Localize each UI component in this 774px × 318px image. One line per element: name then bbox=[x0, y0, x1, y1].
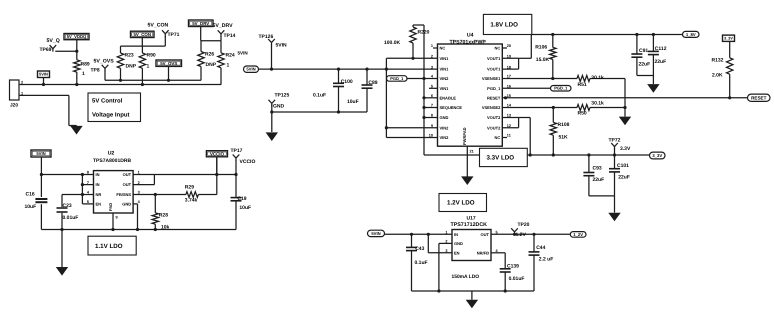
svg-text:5: 5 bbox=[431, 85, 433, 89]
svg-text:R51: R51 bbox=[578, 82, 587, 88]
svg-text:R220: R220 bbox=[418, 30, 430, 36]
svg-text:U4: U4 bbox=[467, 32, 474, 38]
svg-text:Voltage Input: Voltage Input bbox=[92, 112, 130, 119]
svg-text:3: 3 bbox=[431, 65, 433, 69]
svg-text:22uF: 22uF bbox=[618, 175, 630, 181]
svg-text:5VIN: 5VIN bbox=[371, 231, 380, 236]
svg-text:2.0K: 2.0K bbox=[712, 73, 723, 79]
svg-text:C101: C101 bbox=[617, 163, 629, 169]
svg-text:GND: GND bbox=[273, 103, 285, 109]
svg-text:R108: R108 bbox=[558, 122, 570, 128]
svg-text:C43: C43 bbox=[415, 246, 424, 252]
svg-text:13: 13 bbox=[507, 114, 511, 118]
svg-text:TP71: TP71 bbox=[168, 32, 180, 38]
svg-text:GND: GND bbox=[122, 202, 131, 207]
svg-text:TP20: TP20 bbox=[518, 222, 530, 228]
svg-text:R24: R24 bbox=[226, 53, 235, 59]
svg-text:3: 3 bbox=[445, 249, 447, 253]
svg-text:5V_OVS: 5V_OVS bbox=[94, 59, 115, 65]
svg-text:VCCIO: VCCIO bbox=[210, 151, 224, 156]
svg-text:VSENSE2: VSENSE2 bbox=[482, 105, 501, 110]
svg-text:1_2V: 1_2V bbox=[573, 232, 583, 237]
svg-text:1.2V: 1.2V bbox=[516, 232, 527, 238]
svg-text:EN: EN bbox=[96, 202, 102, 207]
svg-text:RESET: RESET bbox=[751, 95, 767, 100]
svg-text:10uF: 10uF bbox=[25, 204, 37, 210]
svg-text:16: 16 bbox=[507, 85, 511, 89]
svg-text:OUT: OUT bbox=[123, 172, 132, 177]
svg-text:1: 1 bbox=[147, 64, 150, 70]
svg-text:VSENSE1: VSENSE1 bbox=[482, 76, 501, 81]
svg-text:VIN1: VIN1 bbox=[440, 67, 450, 72]
svg-text:NC: NC bbox=[495, 135, 501, 140]
svg-text:9: 9 bbox=[116, 216, 118, 220]
svg-text:5V Control: 5V Control bbox=[92, 97, 123, 104]
svg-text:C19: C19 bbox=[237, 196, 246, 202]
svg-text:NC: NC bbox=[440, 46, 446, 51]
svg-text:15.0K: 15.0K bbox=[536, 57, 550, 63]
svg-text:17: 17 bbox=[507, 75, 511, 79]
svg-text:VOUT1: VOUT1 bbox=[487, 56, 501, 61]
svg-text:TPS7A8001DRB: TPS7A8001DRB bbox=[93, 158, 131, 164]
svg-text:C16: C16 bbox=[26, 192, 35, 198]
svg-text:R90: R90 bbox=[147, 53, 156, 59]
svg-text:U2: U2 bbox=[108, 151, 115, 157]
svg-text:RESET: RESET bbox=[487, 95, 501, 100]
svg-text:C93: C93 bbox=[593, 166, 602, 172]
svg-text:3: 3 bbox=[138, 191, 140, 195]
svg-text:VOUT2: VOUT2 bbox=[487, 125, 501, 130]
svg-text:7: 7 bbox=[431, 104, 433, 108]
svg-text:10uF: 10uF bbox=[347, 99, 359, 105]
svg-text:51K: 51K bbox=[559, 135, 569, 141]
svg-text:1.8V LDO: 1.8V LDO bbox=[490, 22, 518, 29]
svg-text:DNP: DNP bbox=[206, 62, 217, 68]
svg-text:5V_VDDQ: 5V_VDDQ bbox=[67, 34, 87, 39]
svg-text:5: 5 bbox=[87, 200, 89, 204]
svg-text:30.1k: 30.1k bbox=[591, 75, 604, 81]
svg-text:5VIN: 5VIN bbox=[276, 43, 288, 49]
svg-text:VIN2: VIN2 bbox=[440, 135, 450, 140]
svg-text:8: 8 bbox=[431, 114, 433, 118]
svg-text:R106: R106 bbox=[535, 44, 547, 50]
svg-text:3.3V LDO: 3.3V LDO bbox=[487, 155, 515, 162]
svg-text:0.01uF: 0.01uF bbox=[509, 276, 525, 282]
svg-text:3_3V: 3_3V bbox=[724, 37, 733, 41]
svg-text:DNP: DNP bbox=[126, 64, 137, 70]
svg-text:TP14: TP14 bbox=[224, 33, 236, 39]
svg-text:NR: NR bbox=[96, 192, 102, 197]
svg-text:VCCIO: VCCIO bbox=[240, 159, 256, 165]
svg-text:22uF: 22uF bbox=[639, 61, 651, 67]
svg-text:R132: R132 bbox=[712, 57, 724, 63]
svg-text:TPS71712DCK: TPS71712DCK bbox=[451, 222, 488, 228]
svg-text:8: 8 bbox=[87, 171, 89, 175]
svg-text:7: 7 bbox=[87, 181, 89, 185]
svg-text:18: 18 bbox=[507, 65, 511, 69]
svg-text:0.01uF: 0.01uF bbox=[63, 215, 79, 221]
svg-text:22uF: 22uF bbox=[655, 59, 667, 65]
svg-text:2: 2 bbox=[445, 240, 447, 244]
svg-text:IN: IN bbox=[454, 232, 458, 237]
svg-text:C44: C44 bbox=[536, 245, 545, 251]
svg-text:TP8: TP8 bbox=[91, 68, 100, 74]
svg-text:9: 9 bbox=[431, 124, 433, 128]
svg-text:3.3V: 3.3V bbox=[620, 146, 631, 152]
svg-text:TP69: TP69 bbox=[40, 47, 52, 53]
svg-text:VIN2: VIN2 bbox=[440, 125, 450, 130]
svg-text:TP17: TP17 bbox=[231, 148, 243, 154]
svg-text:1: 1 bbox=[138, 171, 140, 175]
svg-text:5V_DRV: 5V_DRV bbox=[213, 23, 234, 29]
svg-text:5: 5 bbox=[496, 231, 498, 235]
svg-text:5VIN: 5VIN bbox=[39, 72, 48, 77]
svg-text:5VIN: 5VIN bbox=[238, 51, 249, 56]
svg-text:21: 21 bbox=[470, 150, 474, 154]
svg-text:R23: R23 bbox=[125, 53, 134, 59]
svg-text:PAD: PAD bbox=[108, 203, 113, 211]
svg-text:VIN1: VIN1 bbox=[440, 56, 450, 61]
svg-text:R29: R29 bbox=[185, 184, 194, 190]
svg-text:IN: IN bbox=[96, 172, 100, 177]
svg-text:NC: NC bbox=[495, 46, 501, 51]
svg-text:FB/SNS: FB/SNS bbox=[116, 192, 131, 197]
svg-text:5VIN: 5VIN bbox=[246, 67, 255, 72]
svg-text:EN: EN bbox=[454, 250, 460, 255]
svg-text:C23: C23 bbox=[63, 203, 72, 209]
svg-text:5V_CON: 5V_CON bbox=[148, 22, 169, 28]
svg-text:10uF: 10uF bbox=[239, 205, 251, 211]
svg-text:100.0K: 100.0K bbox=[384, 40, 401, 46]
svg-text:C139: C139 bbox=[507, 264, 519, 270]
svg-text:C112: C112 bbox=[655, 46, 667, 52]
svg-text:1.1V LDO: 1.1V LDO bbox=[95, 243, 123, 250]
svg-text:15: 15 bbox=[507, 94, 511, 98]
svg-text:C100: C100 bbox=[341, 79, 353, 85]
svg-text:VIN2: VIN2 bbox=[440, 76, 450, 81]
svg-text:PWRPAD: PWRPAD bbox=[462, 127, 467, 145]
svg-text:PGD_1: PGD_1 bbox=[390, 76, 404, 81]
svg-text:1: 1 bbox=[431, 44, 433, 48]
svg-text:1: 1 bbox=[445, 231, 447, 235]
svg-text:5V_CON: 5V_CON bbox=[133, 32, 151, 37]
svg-text:3_3V: 3_3V bbox=[652, 153, 662, 158]
svg-text:R89: R89 bbox=[81, 62, 90, 68]
svg-text:C91: C91 bbox=[639, 48, 648, 54]
svg-text:R26: R26 bbox=[205, 52, 214, 58]
svg-text:PGD_1: PGD_1 bbox=[554, 86, 568, 91]
svg-text:5VIN: 5VIN bbox=[36, 151, 45, 156]
svg-text:IN: IN bbox=[96, 182, 100, 187]
svg-text:2.2 uF: 2.2 uF bbox=[539, 257, 553, 263]
svg-text:OUT: OUT bbox=[481, 232, 490, 237]
svg-text:20: 20 bbox=[507, 44, 511, 48]
svg-text:2: 2 bbox=[138, 181, 140, 185]
svg-text:J20: J20 bbox=[10, 103, 18, 109]
svg-text:U17: U17 bbox=[467, 215, 476, 221]
svg-text:22uF: 22uF bbox=[593, 177, 605, 183]
svg-text:VOUT2: VOUT2 bbox=[487, 115, 501, 120]
svg-text:30.1k: 30.1k bbox=[591, 100, 604, 106]
svg-text:1: 1 bbox=[227, 63, 230, 69]
svg-text:10: 10 bbox=[429, 134, 433, 138]
svg-text:SEQUENCE: SEQUENCE bbox=[440, 105, 463, 110]
svg-text:5V_OVS: 5V_OVS bbox=[160, 61, 177, 66]
svg-text:3.74k: 3.74k bbox=[185, 198, 198, 204]
svg-text:1_8V: 1_8V bbox=[686, 32, 696, 37]
svg-text:0.1uF: 0.1uF bbox=[415, 260, 428, 266]
svg-text:NR/FB: NR/FB bbox=[477, 250, 489, 255]
svg-text:VOUT1: VOUT1 bbox=[487, 67, 501, 72]
svg-text:19: 19 bbox=[507, 55, 511, 59]
svg-text:5V_Q: 5V_Q bbox=[47, 38, 60, 44]
svg-text:R50: R50 bbox=[578, 110, 587, 116]
svg-text:150mA LDO: 150mA LDO bbox=[452, 274, 480, 280]
svg-text:6: 6 bbox=[431, 94, 433, 98]
svg-text:C89: C89 bbox=[368, 80, 377, 86]
svg-text:R28: R28 bbox=[159, 212, 168, 218]
svg-text:11: 11 bbox=[507, 134, 511, 138]
svg-text:5V_DRV: 5V_DRV bbox=[192, 21, 209, 26]
svg-text:1.2V LDO: 1.2V LDO bbox=[447, 200, 475, 207]
svg-text:GND: GND bbox=[440, 115, 449, 120]
svg-text:TP72: TP72 bbox=[609, 137, 621, 143]
svg-text:OUT: OUT bbox=[123, 182, 132, 187]
svg-text:0.1uF: 0.1uF bbox=[313, 93, 326, 99]
svg-text:PGD_1: PGD_1 bbox=[487, 86, 501, 91]
svg-text:TP125: TP125 bbox=[275, 93, 290, 99]
svg-text:12: 12 bbox=[507, 124, 511, 128]
svg-text:VIN1: VIN1 bbox=[440, 86, 450, 91]
svg-text:1: 1 bbox=[82, 71, 85, 77]
svg-text:ENABLE: ENABLE bbox=[440, 95, 457, 100]
svg-text:GND: GND bbox=[454, 241, 463, 246]
svg-text:TP126: TP126 bbox=[259, 34, 274, 40]
svg-text:2: 2 bbox=[431, 55, 433, 59]
svg-text:TPS701xxPWP: TPS701xxPWP bbox=[450, 39, 487, 45]
